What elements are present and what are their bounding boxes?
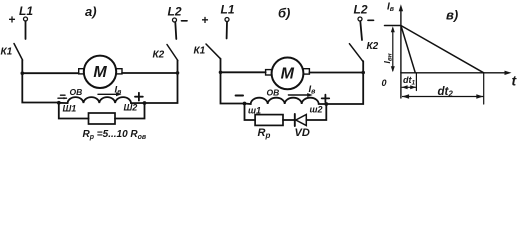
switch K2 (b) (349, 41, 378, 61)
svg-text:Ш1: Ш1 (63, 104, 77, 114)
terminal L2 (b) (354, 3, 374, 22)
node Sh2 junction (143, 101, 147, 105)
decay line dt1 (steep) (401, 26, 415, 73)
wire resistor branch left (59, 103, 89, 119)
extension line dt1 (415, 73, 417, 91)
node Sh2 junction (b) (324, 102, 328, 106)
wire left vertical (22, 60, 59, 103)
dimension dt2 (402, 86, 483, 99)
diode VD (295, 114, 310, 139)
wire motor row right (b) (309, 72, 363, 74)
polarity minus at Sh1 (58, 95, 67, 99)
current arrow Iv (a) (98, 85, 122, 97)
svg-text:L1: L1 (221, 3, 235, 17)
svg-text:К2: К2 (367, 41, 379, 52)
svg-text:ОВ: ОВ (267, 88, 280, 98)
extension line dt2 (483, 73, 485, 104)
svg-text:ш2: ш2 (310, 105, 323, 115)
svg-text:К2: К2 (153, 50, 165, 61)
wire diode branch right (b) (306, 104, 326, 120)
resistor Rp (a) (89, 113, 116, 124)
node junction left-motor (b) (219, 71, 223, 75)
wire motor row left (22, 72, 78, 74)
field winding OV (a): 4 arcs (59, 97, 145, 103)
svg-text:L1: L1 (19, 4, 33, 18)
field winding OV (b): 4 arcs (245, 98, 327, 104)
wire right vertical (145, 61, 178, 104)
wire motor row right (122, 72, 178, 74)
switch K1 (1, 44, 23, 61)
node Sh1 junction (b) (243, 102, 247, 106)
svg-text:L2: L2 (168, 5, 182, 19)
terminal L1 (9, 4, 34, 27)
wire right vertical (b) (326, 61, 363, 104)
switch K2 (153, 45, 178, 61)
wire motor row left (b) (221, 71, 266, 73)
polarity minus at Sh1 (b) (236, 95, 243, 97)
svg-text:К1: К1 (194, 46, 206, 57)
polarity plus at Sh2 (135, 93, 143, 101)
svg-text:L2: L2 (354, 3, 368, 17)
node junction left-motor (21, 71, 25, 75)
wire L2 down (b) (360, 21, 362, 40)
decay line dt2 (shallow) (401, 26, 484, 73)
wire L1 down (b) (226, 22, 228, 39)
svg-text:0: 0 (382, 78, 387, 88)
svg-text:ОВ: ОВ (70, 87, 83, 97)
axis Iв (vertical) (387, 2, 403, 99)
node junction right-motor (176, 71, 180, 75)
svg-text:М: М (93, 64, 107, 81)
svg-text:в): в) (446, 8, 458, 23)
svg-text:а): а) (85, 4, 97, 19)
svg-text:Ш2: Ш2 (124, 103, 138, 113)
resistor Rp (b) (255, 115, 283, 126)
wire resistor branch right (115, 103, 145, 119)
dimension Ivn vertical arrow (382, 26, 395, 72)
axis t (horizontal) (401, 71, 518, 89)
wire L1 down (25, 21, 27, 39)
node junction right-motor (b) (361, 71, 365, 75)
switch K1 (b) (194, 44, 221, 59)
svg-text:К1: К1 (1, 47, 13, 58)
terminal L1 (b) (202, 3, 235, 28)
level line Ivn (385, 25, 401, 27)
dimension dt1 (402, 75, 417, 89)
wire L2 down (175, 22, 176, 39)
node Sh1 junction (57, 101, 61, 105)
terminal L2 (168, 5, 188, 23)
wire diode branch left (b) (245, 104, 256, 121)
svg-text:б): б) (278, 6, 290, 21)
svg-text:VD: VD (295, 127, 310, 139)
polarity plus at Sh2 (b) (322, 95, 330, 102)
svg-text:+: + (202, 13, 209, 27)
svg-text:+: + (9, 13, 16, 27)
motor U1 (M) (79, 56, 122, 88)
wire between resistor and diode (283, 119, 294, 121)
current arrow Iv (b) (288, 84, 316, 97)
svg-text:М: М (281, 66, 295, 83)
motor U2 (M) (266, 58, 310, 90)
wire left vertical (b) (221, 59, 245, 104)
